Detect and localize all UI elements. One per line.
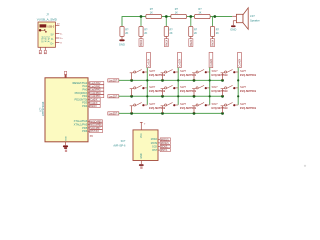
switch S32 [161, 102, 197, 115]
svg-text:RST: RST [152, 149, 157, 152]
net label Lay3 [108, 112, 119, 116]
USB connector J1 name label [37, 13, 58, 22]
svg-text:1K: 1K [175, 11, 178, 14]
wire column 3 [209, 68, 211, 105]
svg-text:RST/XX: RST/XX [90, 130, 99, 133]
switch S31 [130, 102, 166, 115]
svg-text:EVQ-SE7P019: EVQ-SE7P019 [212, 74, 229, 77]
USB pin 4 GND [55, 42, 62, 44]
svg-text:SW?: SW? [180, 85, 187, 89]
switch S23 [192, 85, 228, 98]
SV1 pin MOSI with net label [151, 142, 171, 145]
svg-text:2K: 2K [194, 32, 197, 35]
svg-text:SW?: SW? [240, 69, 247, 73]
net label Col1 vertical [147, 52, 151, 67]
switch S24 [221, 85, 257, 98]
net label Bit3 below resistor [211, 37, 215, 47]
junction column 4 row 2 crossing [237, 95, 239, 97]
IC1 right pin 4 with net label [75, 91, 104, 95]
svg-text:RST/1: RST/1 [161, 150, 168, 152]
junction node 4 [213, 15, 216, 18]
ground below SV1 [139, 161, 144, 169]
svg-text:PD: PD [90, 136, 94, 138]
SV1 pin MISO with net label [151, 138, 171, 141]
svg-text:DM-X: DM-X [44, 36, 47, 43]
wire row 3 [119, 112, 224, 114]
svg-text:SW?: SW? [149, 69, 156, 73]
junction column 2 row 1 crossing [177, 79, 179, 81]
svg-text:SCK: SCK [152, 145, 157, 148]
svg-text:MISO: MISO [151, 138, 157, 141]
svg-text:EVQ-SE7P019: EVQ-SE7P019 [149, 107, 166, 110]
wire stub node 3 [190, 17, 192, 27]
ISP header SV1 body [113, 130, 158, 161]
svg-text:Bit0X: Bit0X [139, 39, 143, 45]
USB pin 2 D- [55, 33, 62, 35]
svg-text:EVQ-SE7P019: EVQ-SE7P019 [240, 74, 257, 77]
net label Bit0 below resistor [139, 37, 143, 47]
net label VCC above IC1 [64, 71, 66, 78]
svg-text:USB-5: USB-5 [47, 25, 55, 28]
svg-text:V: V [144, 123, 146, 125]
USB shield net label right [44, 50, 47, 53]
svg-text:J?: J? [46, 13, 49, 17]
svg-text:EVQ-SE7P019: EVQ-SE7P019 [240, 107, 257, 110]
wire corner down to R terminator [121, 16, 123, 26]
net label Bit1 below resistor [164, 37, 168, 47]
junction column 1 row 1 crossing [146, 79, 148, 81]
svg-text:SW?: SW? [212, 102, 219, 106]
svg-text:SW?: SW? [240, 102, 247, 106]
power VCC above SV1 [140, 122, 146, 129]
svg-text:EVQ-SE7P019: EVQ-SE7P019 [212, 90, 229, 93]
grid dot [304, 165, 306, 167]
svg-text:MOSI/1: MOSI/1 [161, 143, 170, 145]
IC1 right pin 5 with net label [82, 94, 104, 98]
svg-text:GND: GND [230, 28, 236, 32]
junction column 3 row 1 crossing [209, 79, 211, 81]
svg-text:GND: GND [65, 136, 67, 141]
IC1 right pin 7 with net label [82, 101, 100, 105]
wire row 2 [119, 95, 224, 97]
SV1 pin SCK with net label [152, 145, 170, 148]
svg-text:SV?: SV? [121, 140, 126, 143]
switch S13 [192, 69, 228, 82]
net label Bit2 below resistor [189, 37, 193, 47]
IC1 right pin 3 with net label [82, 88, 103, 92]
SV1 pin RST with net label [152, 149, 170, 152]
ground below R2 [119, 37, 125, 47]
USB shield net label left [39, 50, 42, 53]
svg-text:GND: GND [119, 43, 125, 47]
resistor R2 terminator 2R [120, 17, 129, 37]
svg-text:D-: D- [60, 33, 63, 35]
svg-text:VCC: VCC [141, 133, 143, 138]
wire stub node 1 [140, 17, 142, 27]
USB connector J1 body [38, 22, 55, 47]
switch S33 [192, 102, 228, 115]
wire row 1 [119, 79, 224, 81]
USB pin 1 VBUS [55, 24, 60, 26]
svg-text:Bit1X: Bit1X [164, 39, 168, 45]
svg-text:2K: 2K [125, 32, 128, 35]
svg-text:5V: 5V [51, 33, 54, 36]
IC1 right pin 2 with net label [82, 84, 103, 88]
switch S21 [130, 85, 166, 98]
resistor 2R bit 2 [189, 27, 198, 37]
svg-text:MISO/1: MISO/1 [161, 139, 170, 141]
svg-text:SW?: SW? [240, 85, 247, 89]
USB shield pin stub right [44, 47, 46, 50]
net label Col4 vertical [237, 52, 241, 67]
svg-text:EVQ-SE7P019: EVQ-SE7P019 [240, 90, 257, 93]
junction node 1 [140, 15, 143, 18]
svg-text:Lay2D?: Lay2D? [109, 95, 118, 98]
svg-text:2K: 2K [216, 32, 219, 35]
resistor 2R bit 0 [139, 27, 148, 37]
svg-text:PD6: PD6 [82, 129, 88, 133]
svg-text:2K: 2K [170, 32, 173, 35]
svg-text:Bit2X: Bit2X [189, 39, 193, 45]
ground below IC1 [63, 136, 68, 152]
svg-text:D-: D- [51, 38, 54, 41]
resistor 2R bit 1 [164, 27, 173, 37]
svg-text:SW?: SW? [180, 102, 187, 106]
svg-text:VBUS: VBUS [41, 36, 44, 43]
resistor 2R bit 3 [210, 27, 219, 37]
net label Lay2 [108, 95, 119, 99]
junction column 4 row 1 crossing [237, 79, 239, 81]
svg-text:G: G [60, 42, 62, 44]
IC1 lower pin 3 with net label [82, 126, 102, 130]
resistor series R3 [194, 8, 210, 19]
junction node 2 [165, 15, 168, 18]
net label Lay1 [108, 79, 119, 83]
wire column 1 [146, 68, 148, 105]
svg-text:SW?: SW? [180, 69, 187, 73]
wire column 2 [177, 68, 179, 105]
svg-text:ATTINY2313: ATTINY2313 [42, 101, 45, 116]
svg-text:D+: D+ [60, 38, 64, 40]
junction column 1 row 2 crossing [146, 95, 148, 97]
svg-text:5V: 5V [57, 24, 60, 26]
IC1 lower pin 1 with net label [74, 119, 103, 123]
op IC1 microcontroller body [40, 78, 88, 142]
svg-text:Lay3D?: Lay3D? [109, 112, 118, 115]
svg-text:Speaker: Speaker [250, 18, 260, 22]
svg-text:EVQ-SE7P019: EVQ-SE7P019 [149, 74, 166, 77]
svg-text:SW?: SW? [149, 85, 156, 89]
svg-text:VUSB_A_SMD: VUSB_A_SMD [37, 17, 58, 21]
net label Col3 vertical [209, 52, 213, 67]
svg-text:DP+X: DP+X [47, 36, 50, 43]
svg-text:Col3/X: Col3/X [209, 59, 213, 67]
junction column 3 row 2 crossing [209, 95, 211, 97]
IC1 lower pin 2 with net label [74, 123, 103, 127]
svg-text:SCK/1: SCK/1 [161, 147, 168, 149]
net label Col2 vertical [177, 52, 181, 67]
svg-text:EVQ-SE7P019: EVQ-SE7P019 [212, 107, 229, 110]
svg-text:LS?: LS? [250, 14, 255, 18]
svg-text:SW?: SW? [149, 102, 156, 106]
svg-text:EVQ-SE7P019: EVQ-SE7P019 [149, 90, 166, 93]
svg-text:GND: GND [141, 153, 143, 158]
switch S12 [161, 69, 197, 82]
svg-text:SW?: SW? [212, 69, 219, 73]
svg-text:Lay1D?: Lay1D? [109, 79, 118, 82]
IC1 right pin 8 with net label [82, 104, 100, 108]
wire column 4 [237, 68, 239, 105]
speaker LS1 [232, 8, 260, 29]
wire stub node 2 [165, 17, 167, 27]
svg-text:Bit3X: Bit3X [211, 39, 215, 45]
svg-text:AVR-ISP-6: AVR-ISP-6 [113, 144, 126, 147]
junction node 3 [189, 15, 192, 18]
svg-text:SW?: SW? [212, 85, 219, 89]
svg-text:Col4/X: Col4/X [237, 59, 241, 67]
resistor series R1 [146, 8, 162, 19]
svg-text:2K: 2K [144, 32, 147, 35]
svg-text:Bit0/X: Bit0/X [90, 105, 97, 108]
IC1 lower pin 4 with net label [82, 129, 102, 133]
IC1 right pin 1 with net label [72, 81, 104, 85]
svg-text:1K: 1K [150, 11, 153, 14]
ground below speaker [230, 25, 236, 31]
svg-text:1K: 1K [198, 11, 201, 14]
USB pin 3 D+ [55, 38, 63, 40]
wire stub node 4 [212, 17, 214, 27]
svg-text:MOSI: MOSI [151, 142, 158, 145]
resistor series R2 [171, 8, 187, 19]
IC1 right pin 6 with net label [74, 97, 100, 101]
switch S11 [130, 69, 166, 82]
svg-text:Col1/X: Col1/X [147, 59, 151, 67]
switch S22 [161, 85, 197, 98]
svg-text:PD4: PD4 [82, 104, 88, 108]
svg-text:Col2/X: Col2/X [177, 59, 181, 67]
wire DAC summing rail [122, 16, 232, 18]
junction column 2 row 2 crossing [177, 95, 179, 97]
switch S14 [221, 69, 257, 82]
USB shield pin stub left [39, 47, 41, 50]
switch S34 [221, 102, 257, 115]
